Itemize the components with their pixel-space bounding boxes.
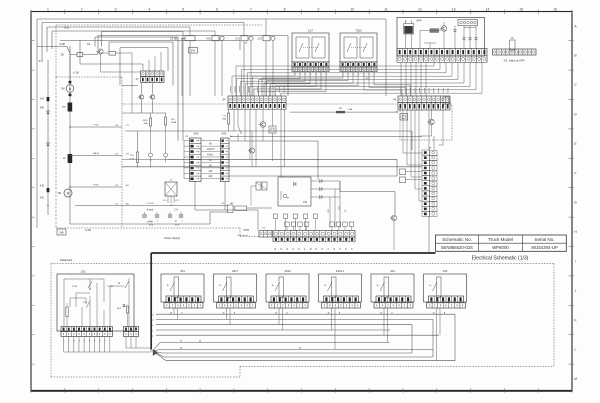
svg-text:2B: 2B — [61, 54, 64, 57]
svg-text:7: 7 — [250, 7, 252, 11]
indicator lamp V6.6 a — [143, 212, 147, 218]
connector pins 2S17 — [217, 296, 256, 308]
svg-text:Power Supply: Power Supply — [164, 236, 181, 240]
stair wires 7S20 — [262, 72, 411, 96]
switch contact 2B — [61, 47, 70, 57]
svg-text:6P4: 6P4 — [417, 19, 422, 23]
svg-text:4: 4 — [148, 7, 150, 11]
wire stubs 1S3 — [432, 308, 445, 315]
svg-text:G: G — [574, 201, 577, 205]
svg-text:M: M — [574, 377, 577, 381]
svg-text:24V: 24V — [208, 175, 213, 178]
svg-text:4: 4 — [79, 341, 80, 343]
dashed mid separator line — [286, 103, 398, 105]
svg-text:CAN H: CAN H — [207, 148, 215, 151]
switch 7S19 in 1S2 — [72, 281, 92, 290]
connector strip K3 — [185, 136, 201, 182]
svg-text:F: F — [574, 171, 576, 175]
svg-text:2: 2 — [81, 7, 83, 11]
diode D2 in 6P4 — [463, 38, 466, 40]
svg-text:gn: gn — [149, 221, 151, 223]
wire nested L3 — [109, 42, 173, 86]
connector pins 7S20 — [340, 62, 377, 72]
label 24V left — [194, 132, 199, 136]
header pins above strip X2 row1 — [273, 214, 317, 231]
svg-text:9: 9 — [105, 341, 106, 343]
svg-text:V3: V3 — [170, 205, 172, 207]
bold partition line — [151, 253, 435, 350]
valve 2Y2 — [235, 36, 253, 41]
transformer T1 in 6P4 — [404, 21, 414, 35]
svg-text:M 30: M 30 — [94, 185, 100, 187]
diode D1 in 6P4 — [454, 30, 457, 32]
wire bus y159 — [168, 159, 398, 176]
relay K small box — [269, 109, 276, 161]
svg-text:6: 6 — [216, 7, 218, 11]
fuse 6F7 10A — [290, 108, 398, 114]
connector pins 1S7 — [292, 62, 329, 72]
label Databoard — [60, 258, 73, 262]
svg-text:1F10: 1F10 — [143, 120, 149, 122]
switch module 2S17 — [214, 269, 257, 302]
svg-text:Serial No.: Serial No. — [534, 237, 554, 242]
svg-text:7S19: 7S19 — [72, 286, 78, 288]
svg-text:7S20: 7S20 — [355, 29, 362, 33]
svg-text:5EN886620-02S: 5EN886620-02S — [441, 245, 473, 250]
connector pins 2S1 — [164, 296, 203, 308]
switch module 1S3 — [424, 269, 467, 302]
svg-text:24V: 24V — [194, 132, 199, 136]
bus wire lower b — [160, 347, 433, 349]
wire left column — [48, 46, 70, 224]
contact pair S mid — [251, 182, 267, 206]
motor 1M battery — [61, 72, 79, 97]
wire stub left of K3 — [122, 141, 184, 179]
svg-text:L: L — [575, 348, 577, 352]
svg-text:r1 2lP: r1 2lP — [59, 43, 66, 46]
bus wire lower a — [160, 341, 390, 343]
label Power Supply — [164, 236, 181, 240]
svg-text:9: 9 — [317, 7, 319, 11]
wires below X6 — [403, 110, 443, 201]
wire bus y137 — [230, 136, 422, 138]
svg-text:24V: 24V — [222, 132, 227, 136]
svg-text:Ca: Ca — [87, 42, 91, 46]
bus wire 3 — [152, 314, 455, 361]
row wires between K3 and A1 — [184, 141, 221, 179]
svg-text:10A: 10A — [348, 108, 352, 111]
svg-text:7: 7 — [94, 341, 95, 343]
switch contact mid — [238, 109, 242, 141]
svg-text:4A1: 4A1 — [206, 37, 211, 41]
fuse 24B — [62, 103, 73, 112]
component 4B above K1 box — [443, 97, 449, 104]
svg-text:X41: X41 — [40, 197, 45, 200]
transistor Q5 — [149, 95, 155, 99]
net labels between strips — [207, 143, 215, 179]
wire to coil Ca — [70, 42, 91, 55]
wire coil to transistor — [83, 52, 98, 55]
svg-text:3: 3 — [74, 341, 75, 343]
label 05 under 2Y2 — [245, 43, 248, 45]
connector strip 6P4 pins — [397, 49, 487, 56]
svg-text:9Y3: 9Y3 — [39, 60, 44, 63]
svg-text:X3, without 6P4: X3, without 6P4 — [503, 59, 524, 63]
boxed label 24B bottom — [57, 229, 66, 235]
wire r1 2lP — [37, 43, 67, 47]
dashed enclosure bottom section — [51, 264, 554, 378]
svg-text:150A: 150A — [129, 158, 135, 161]
connector strip A1 — [221, 135, 234, 182]
connector strip X2 interface — [273, 231, 355, 242]
svg-text:2 A: 2 A — [174, 209, 178, 212]
wire bus y167 — [122, 166, 422, 168]
connector pins 2S19 — [269, 296, 308, 308]
wire bus ring 1 — [37, 19, 386, 228]
relay K1 — [396, 112, 408, 121]
diode V upper — [46, 111, 49, 114]
connector strip 6P4 sockets — [397, 56, 487, 63]
sensor 22 6B — [170, 36, 195, 41]
pin name marks above X6 — [400, 88, 448, 93]
wire bus y176 — [229, 175, 397, 177]
inductor L1 in 6P4 — [430, 29, 439, 33]
switch block 1S7 — [292, 29, 329, 63]
bus wire 2 — [152, 335, 439, 337]
svg-text:Schematic No.: Schematic No. — [442, 237, 472, 242]
connector pins 4S1 — [374, 296, 413, 308]
svg-text:24B: 24B — [59, 232, 64, 235]
svg-text:1: 1 — [47, 7, 49, 11]
boxed label 34V — [189, 48, 198, 54]
svg-text:2S19.1: 2S19.1 — [336, 269, 345, 273]
svg-text:22 6B: 22 6B — [170, 37, 177, 41]
wire stubs 2S17 — [222, 308, 235, 315]
dashed link to title area — [240, 236, 259, 238]
switch module 2S19.1 — [319, 269, 362, 302]
svg-text:13: 13 — [452, 7, 456, 11]
diode module V42 — [278, 177, 311, 206]
svg-text:Truck Model: Truck Model — [488, 237, 513, 242]
valve 4A1 — [206, 36, 224, 41]
svg-text:50A: 50A — [222, 118, 226, 121]
pin labels 1S7 — [294, 74, 328, 76]
svg-text:10: 10 — [350, 7, 354, 11]
junction dots left column — [47, 126, 70, 206]
wire M 23P — [70, 212, 228, 224]
svg-text:Databoard: Databoard — [60, 258, 73, 262]
switch module 4S1 — [371, 269, 414, 302]
svg-text:16: 16 — [553, 7, 557, 11]
svg-text:1S7: 1S7 — [308, 29, 313, 33]
wire bus ring 2 — [42, 23, 244, 61]
connector X1 A2 — [222, 202, 272, 213]
wire nested L4 — [120, 48, 168, 86]
label 7S7B — [243, 229, 249, 232]
vertical feeders from E4 — [234, 109, 285, 177]
transistor Q2 — [96, 49, 103, 54]
terminal row OOOOA in 6P4 — [458, 20, 478, 26]
svg-text:11: 11 — [384, 7, 388, 11]
connector strip A5/X5 — [422, 147, 437, 217]
wire bus ring 6 — [60, 41, 240, 65]
sheet caption — [472, 255, 529, 261]
resistor R ca2 — [103, 51, 132, 113]
indicator lamp V6.6 c — [168, 212, 172, 218]
lamp symbols below fuses — [149, 125, 168, 168]
switch 9 12B in 1S2 — [107, 281, 129, 288]
diode D7 row — [311, 195, 340, 198]
bus wire bottom return — [166, 360, 455, 362]
wire M30 — [70, 185, 122, 188]
svg-text:7S7B: 7S7B — [243, 229, 249, 232]
bus wire 16 — [151, 325, 412, 353]
svg-text:90154384-UP: 90154384-UP — [531, 245, 558, 250]
svg-text:24B: 24B — [62, 107, 66, 109]
svg-text:J: J — [575, 289, 577, 293]
svg-text:8 seat: 8 seat — [147, 209, 154, 212]
indicator lamp V6.6 d — [179, 212, 183, 218]
svg-text:1Y2: 1Y2 — [257, 37, 262, 41]
connector pins 2S19.1 — [322, 296, 361, 308]
diode D4 in 6P4 — [475, 38, 478, 40]
wire bus y131 — [125, 131, 412, 150]
svg-text:HA 30: HA 30 — [93, 152, 100, 155]
dashed enclosure K1 area — [400, 104, 452, 140]
label interface — [237, 234, 249, 237]
svg-text:1A1: 1A1 — [64, 26, 70, 30]
tiny labels below 1S2 — [64, 341, 106, 343]
transistor Q8 — [420, 110, 434, 136]
indicator lamp V6.6 b — [155, 212, 159, 218]
wire emitter drop — [70, 54, 141, 81]
svg-text:5: 5 — [182, 7, 184, 11]
svg-text:X40: X40 — [40, 107, 45, 110]
module drop wires — [174, 312, 440, 361]
svg-text:2: 2 — [69, 341, 70, 343]
svg-text:L1 2LP: L1 2LP — [147, 203, 154, 205]
svg-text:14: 14 — [486, 7, 490, 11]
wires component row to strip E4 — [182, 19, 273, 96]
svg-text:M: M — [67, 192, 70, 196]
svg-text:12: 12 — [418, 7, 422, 11]
pin numbers below X2 — [275, 247, 353, 250]
motor 2M — [58, 189, 72, 197]
svg-text:B: B — [69, 87, 71, 91]
svg-text:8: 8 — [100, 341, 101, 343]
svg-text:15: 15 — [519, 7, 523, 11]
svg-text:1S2: 1S2 — [81, 270, 86, 274]
wire fan labels — [180, 341, 183, 350]
svg-text:1: 1 — [64, 341, 65, 343]
connector strip 1S2 left — [61, 327, 113, 337]
wire bus ring 3 — [47, 27, 190, 52]
label 24V right — [222, 132, 227, 136]
diode 6S1 in 1S2 — [117, 305, 125, 310]
diode D6 row — [311, 187, 340, 190]
wires below K3 A1 — [195, 182, 258, 231]
connector pins 1S3 — [427, 296, 466, 308]
svg-text:WP8000: WP8000 — [492, 245, 509, 250]
svg-text:6V: 6V — [209, 143, 212, 146]
fuse F1 50A — [222, 109, 229, 131]
svg-text:9 12B: 9 12B — [107, 286, 113, 288]
connector A7 — [136, 71, 164, 83]
fuse 2F1 150A — [129, 131, 139, 168]
wire stubs 2S1 — [170, 308, 183, 315]
svg-text:2M: 2M — [58, 192, 61, 195]
pin labels 7S20 — [342, 74, 376, 80]
wire HA30 — [70, 152, 122, 156]
resistor right in 1S2 — [126, 306, 128, 327]
wire nested L1 — [102, 32, 184, 141]
transistor Q10 — [390, 215, 397, 250]
labels gn rt — [149, 220, 183, 223]
svg-text:V6.6: V6.6 — [175, 225, 180, 227]
contact S12 in 1S2 — [83, 301, 90, 308]
title block — [436, 235, 567, 251]
switch block 7S20 — [340, 29, 377, 63]
wire bus ring 5 — [98, 36, 288, 97]
svg-text:24V: 24V — [191, 49, 196, 53]
fuse 9B — [63, 154, 72, 163]
label 2 A — [174, 209, 178, 212]
risers above A7 — [143, 52, 161, 71]
stair wires 6P4 to E4 — [236, 62, 482, 96]
svg-text:2S19: 2S19 — [284, 269, 291, 273]
net labels at dashed edge — [115, 125, 129, 206]
diode D3 in 6P4 — [469, 38, 472, 40]
svg-text:3: 3 — [115, 7, 117, 11]
wire H30 — [70, 125, 122, 128]
wires inside 6P4 — [406, 20, 477, 49]
transistor Q3 in 6P4 — [440, 26, 447, 32]
coil Ca box — [77, 52, 83, 56]
wires below 1S2 strips — [64, 337, 152, 353]
svg-text:12V: 12V — [208, 170, 213, 173]
control unit 6P4 box — [397, 18, 485, 57]
svg-text:2Y2: 2Y2 — [235, 37, 240, 41]
control board 1S2 box — [57, 270, 134, 332]
fuse 1F10 40A — [143, 118, 152, 126]
svg-text:4S1: 4S1 — [390, 269, 395, 273]
labels V6.6 — [149, 225, 180, 227]
switch module 2S19 — [266, 269, 309, 302]
wire nested L2 — [95, 37, 178, 141]
module boxes small right — [400, 169, 423, 183]
wire bus y141 — [230, 141, 318, 179]
fuse 3F1 150A — [165, 117, 177, 125]
diode D5 row — [311, 179, 340, 182]
label 9Y3 — [39, 60, 44, 63]
svg-text:150A: 150A — [171, 121, 177, 124]
valve 1Y2 — [257, 36, 275, 41]
transistor Q4 — [138, 95, 144, 99]
connector strip E4 — [223, 96, 286, 109]
svg-text:V6.6: V6.6 — [149, 225, 154, 227]
wire stubs 4S1 — [380, 308, 393, 315]
wires right of diode row — [330, 181, 340, 228]
connector strip 1S2 right — [124, 327, 139, 337]
svg-text:r1 1b*: r1 1b* — [73, 72, 79, 75]
svg-text:V5.1: V5.1 — [163, 200, 167, 202]
svg-text:1S3: 1S3 — [443, 269, 448, 273]
svg-text:H 30: H 30 — [94, 125, 99, 127]
svg-text:X41: X41 — [40, 98, 45, 101]
transistor Q6 — [259, 109, 266, 141]
bus wire lower c — [162, 352, 412, 354]
wire stubs 2S19.1 — [327, 308, 340, 315]
wire bus ring 4 — [52, 31, 215, 49]
label 8 seat — [147, 209, 154, 212]
wire fan junction — [153, 343, 166, 361]
svg-text:V42: V42 — [303, 201, 308, 204]
wire L1 2LP — [75, 203, 228, 206]
module with cross V5 — [165, 180, 177, 204]
svg-text:2S1: 2S1 — [180, 269, 185, 273]
wire below A5 — [428, 217, 430, 253]
bus wire 4 — [152, 319, 433, 357]
label 1L1B — [85, 229, 91, 232]
diode V lower — [46, 143, 49, 146]
wires inside 1S2 — [64, 278, 129, 327]
terminal X40/X41 lower — [40, 185, 50, 200]
header pins above strip X2 row2 — [285, 206, 354, 231]
labels V5 — [163, 200, 179, 207]
svg-text:gn: gn — [175, 221, 177, 223]
bus wire lower d — [164, 356, 433, 358]
switch module 2S1 — [161, 269, 204, 302]
svg-text:8: 8 — [284, 7, 286, 11]
svg-text:40A: 40A — [144, 122, 148, 125]
svg-text:6: 6 — [89, 341, 90, 343]
pin name marks above E4 — [230, 86, 284, 93]
dashed enclosure 1A1 — [56, 25, 262, 236]
terminal X41/X40 upper — [40, 97, 50, 110]
resistor in 1S2 — [66, 303, 68, 327]
svg-text:W: W — [180, 341, 182, 343]
svg-text:I: I — [575, 260, 576, 264]
svg-text:CAN L: CAN L — [207, 153, 215, 156]
wire bus y192 — [340, 181, 395, 216]
svg-text:1L1B: 1L1B — [85, 229, 91, 232]
transistor Q7 — [248, 131, 255, 167]
connector strip X6 — [393, 96, 450, 110]
svg-text:V5.2: V5.2 — [175, 200, 179, 202]
svg-text:2S17: 2S17 — [232, 269, 239, 273]
stair wires 1S7 to E4 — [232, 72, 326, 96]
connector X3 without 6P4 — [493, 38, 537, 63]
svg-text:X40: X40 — [40, 185, 45, 188]
svg-text:5: 5 — [84, 341, 85, 343]
wire stubs 2S19 — [275, 308, 288, 315]
svg-text:2M: 2M — [61, 88, 64, 91]
bus wire 1 — [152, 330, 390, 332]
cells K2 — [259, 228, 272, 238]
svg-text:gn: gn — [287, 197, 289, 199]
wires below 6P4 going to X6 — [401, 62, 426, 96]
svg-text:Electrical Schematic (1/3): Electrical Schematic (1/3) — [472, 255, 529, 261]
wires around Q4 Q5 — [122, 83, 166, 118]
